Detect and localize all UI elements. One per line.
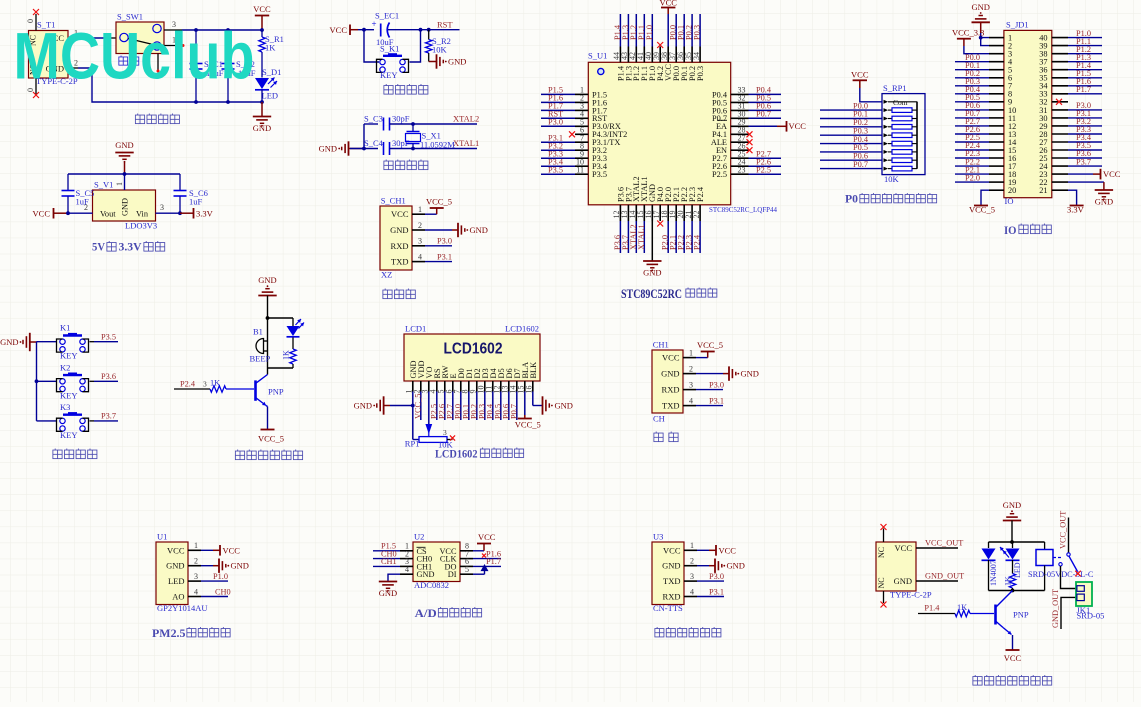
svg-text:GND_OUT: GND_OUT — [1051, 589, 1060, 628]
svg-text:23: 23 — [738, 165, 746, 174]
svg-text:1: 1 — [418, 205, 422, 214]
svg-text:GND: GND — [390, 225, 408, 235]
svg-text:RST: RST — [437, 19, 453, 29]
svg-text:VCC: VCC — [895, 543, 913, 553]
svg-text:P2.0: P2.0 — [965, 173, 980, 182]
wire/net P3.0 tts — [697, 580, 724, 582]
svg-text:GP2Y1014AU: GP2Y1014AU — [157, 603, 208, 613]
power port VCC top — [253, 4, 271, 16]
svg-text:VCC: VCC — [851, 70, 869, 80]
svg-text:4: 4 — [690, 587, 694, 596]
svg-text:1K: 1K — [1004, 576, 1013, 586]
svg-text:5: 5 — [465, 565, 469, 574]
power port VCC_5 serial — [696, 357, 708, 359]
svg-text:P0: P0 — [845, 194, 858, 206]
JD1 pin 14 — [989, 141, 1004, 143]
label voice module — [655, 627, 664, 637]
svg-text:GND: GND — [121, 198, 130, 216]
svg-text:GND: GND — [741, 369, 759, 379]
svg-text:U2: U2 — [414, 532, 424, 542]
svg-text:VCC_5: VCC_5 — [258, 434, 284, 444]
wire/net P3.0 serial — [696, 389, 723, 391]
key K2 — [37, 380, 57, 382]
JD1 pin 2 — [989, 45, 1004, 47]
JD1 pin 40 — [1052, 37, 1068, 39]
wire/net P2.5 JD1 — [955, 141, 989, 143]
svg-text:1: 1 — [115, 182, 124, 186]
wire/net P1.1 JD1 — [1068, 45, 1102, 47]
RP1 pin 5 — [884, 133, 889, 137]
pin 34 P0.3 — [699, 47, 701, 63]
svg-text:S_C3: S_C3 — [364, 114, 383, 124]
label serial port — [654, 432, 663, 442]
svg-text:GND: GND — [894, 576, 912, 586]
wire switch to JK1 — [1061, 566, 1077, 589]
svg-text:Vin: Vin — [136, 210, 149, 219]
pin 6 P4.3/INT2 — [575, 133, 588, 135]
ground GND LCD right — [532, 392, 534, 406]
pin 44 P1.4 — [619, 47, 621, 63]
pin 24 P2.6 — [731, 165, 749, 167]
JD1 pin 12 — [989, 125, 1004, 127]
wire VCC to RP1 com — [860, 88, 882, 102]
svg-text:21: 21 — [1039, 186, 1047, 195]
label alarm circuit — [235, 450, 244, 460]
svg-text:SRD-05: SRD-05 — [1077, 611, 1105, 621]
svg-text:RXD: RXD — [663, 592, 681, 602]
pin 5 P3.0/RX — [575, 125, 588, 127]
svg-text:TXD: TXD — [663, 576, 680, 586]
relay switch contact — [1053, 557, 1063, 559]
svg-text:P1.7: P1.7 — [486, 557, 501, 566]
JD1 pin 8 — [989, 93, 1004, 95]
wire alarm bottom node — [268, 367, 294, 369]
svg-text:3: 3 — [203, 380, 207, 389]
svg-text:GND: GND — [258, 275, 276, 285]
wire/net P3.6 JD1 — [1068, 157, 1102, 159]
wire button bus — [36, 342, 38, 421]
wire/net P2.6 JD1 — [955, 133, 989, 135]
wire/net P2.2 JD1 — [955, 165, 989, 167]
pin 17 P4.0 — [659, 205, 661, 221]
svg-text:S_CH1: S_CH1 — [381, 196, 406, 206]
wire/net P0.2 JD1 — [955, 77, 989, 79]
resistor 1K alarm — [292, 338, 294, 350]
svg-text:VCC: VCC — [1004, 653, 1022, 663]
svg-text:P2.4: P2.4 — [696, 186, 705, 202]
svg-text:1N4007: 1N4007 — [989, 560, 998, 586]
JD1 pin 11 — [989, 117, 1004, 119]
svg-text:GND: GND — [253, 123, 271, 133]
svg-text:GND: GND — [417, 570, 435, 579]
svg-text:VCC: VCC — [789, 121, 807, 131]
svg-text:10K: 10K — [432, 45, 448, 55]
pin 25 P2.7 — [731, 157, 749, 159]
crystal S_X1 11.0592M — [412, 124, 414, 131]
ground GND JD1 top — [971, 2, 989, 23]
RP1 pin 6 — [884, 142, 889, 146]
svg-text:P3.5: P3.5 — [548, 165, 563, 174]
wire/net P1.5 JD1 — [1068, 77, 1102, 79]
pin 33 P0.4 — [731, 93, 749, 95]
transistor PNP relay — [994, 605, 997, 625]
wire/net P2.4 JD1 — [955, 149, 989, 151]
wire P0.0 to RP1 — [820, 109, 882, 111]
ground GND ldo — [115, 153, 133, 163]
power port 3.3V ldo — [180, 212, 193, 214]
svg-text:3: 3 — [418, 237, 422, 246]
svg-text:4: 4 — [689, 396, 693, 405]
JD1 pin 34 — [1052, 85, 1068, 87]
wire/net P0.5 JD1 — [955, 101, 989, 103]
pin 22 P2.4 — [699, 205, 701, 221]
svg-text:P3.1: P3.1 — [709, 396, 724, 405]
pin 1 P1.5 — [575, 93, 588, 95]
svg-text:5V: 5V — [92, 242, 106, 254]
svg-text:3.3V: 3.3V — [196, 209, 214, 219]
label relay control circuit — [973, 675, 982, 685]
svg-text:CH1: CH1 — [381, 557, 397, 566]
RP1 pin 2 — [884, 108, 889, 112]
key K3 — [37, 420, 57, 422]
transistor PNP alarm — [254, 380, 257, 400]
mcu S_U1 STC89C52RC_LQFP44 — [588, 62, 730, 205]
wire VCC_3.3 to pin 3 — [964, 46, 989, 54]
svg-text:BEEP: BEEP — [250, 354, 271, 364]
wire/net P3.2 JD1 — [1068, 125, 1102, 127]
power port VCC_5 LCD backlight — [524, 392, 526, 416]
pin 16 GND — [651, 205, 653, 221]
svg-text:2: 2 — [689, 364, 693, 373]
svg-text:P1.0: P1.0 — [213, 572, 228, 581]
svg-text:S_RP1: S_RP1 — [883, 83, 907, 93]
JD1 pin 32 — [1052, 101, 1068, 103]
wire GND to pins 1-2 — [981, 33, 989, 38]
JD1 pin 5 — [989, 69, 1004, 71]
wire/net P3.1 tts — [697, 596, 724, 598]
label crystal circuit — [384, 160, 393, 170]
svg-text:10K: 10K — [884, 174, 900, 184]
wire/net P3.1 serial — [696, 405, 723, 407]
pin 3 P1.7 — [575, 109, 588, 111]
pin 20 P2.2 — [683, 205, 685, 221]
svg-text:2: 2 — [418, 221, 422, 230]
svg-text:3.3V: 3.3V — [119, 242, 143, 254]
svg-text:P3.0: P3.0 — [709, 380, 724, 389]
svg-text:NC: NC — [877, 547, 886, 558]
svg-text:P1.4: P1.4 — [924, 604, 940, 613]
svg-text:KEY: KEY — [60, 351, 77, 361]
power port VCC adc — [473, 550, 484, 552]
pin 43 P1.3 — [627, 47, 629, 63]
pin 27 ALE — [731, 141, 749, 143]
svg-text:TXD: TXD — [662, 401, 679, 411]
svg-text:VCC: VCC — [659, 0, 677, 8]
resistor network S_RP1 10K — [882, 94, 925, 175]
wire/net CH1 adc — [373, 565, 400, 567]
wire/net P1.0 JD1 — [1068, 37, 1102, 39]
header JK1 SRD-05 — [1076, 582, 1092, 606]
power port VCC relay — [1012, 635, 1014, 650]
JD1 pin 33 — [1052, 93, 1068, 95]
svg-text:GND: GND — [470, 225, 488, 235]
JD1 pin 36 — [1052, 69, 1068, 71]
svg-text:S_K1: S_K1 — [380, 44, 399, 54]
JD1 pin 10 — [989, 109, 1004, 111]
wire/net P0.6 JD1 — [955, 109, 989, 111]
power port 3.3V JD1 pin21 — [1068, 190, 1077, 205]
svg-text:+: + — [371, 19, 376, 29]
pin 40 P1.0 — [651, 47, 653, 63]
power port VCC_5 alarm — [267, 407, 269, 430]
svg-text:RP1: RP1 — [405, 439, 420, 449]
svg-text:VCC: VCC — [1103, 169, 1121, 179]
svg-text:11.0592M: 11.0592M — [420, 140, 455, 150]
JD1 pin 28 — [1052, 133, 1068, 135]
wire/net P0.7 JD1 — [955, 117, 989, 119]
JD1 pin 4 — [989, 61, 1004, 63]
pin 9 P3.3 — [575, 157, 588, 159]
wire relay top rail — [989, 541, 1045, 543]
wire/net P2.3 JD1 — [955, 157, 989, 159]
svg-text:GND: GND — [448, 57, 466, 67]
svg-text:1K: 1K — [265, 43, 276, 53]
svg-text:A/D: A/D — [415, 608, 437, 620]
svg-text:GND: GND — [354, 401, 372, 411]
relay T pin bottom no-connect — [883, 591, 885, 603]
pin 2 P1.6 — [575, 101, 588, 103]
JD1 pin 35 — [1052, 77, 1068, 79]
svg-text:AO: AO — [172, 592, 184, 602]
relay coil SRD-05VDC-SL-C — [1044, 542, 1046, 550]
svg-text:P0.7: P0.7 — [509, 404, 518, 419]
label reset circuit — [384, 84, 393, 94]
JD1 pin 18 — [989, 173, 1004, 175]
JD1 pin 6 — [989, 77, 1004, 79]
pin 18 P2.0 — [667, 205, 669, 221]
JD1 pin 38 — [1052, 53, 1068, 55]
svg-text:GND: GND — [661, 369, 679, 379]
pin 37 P0.0 — [675, 47, 677, 63]
svg-text:P3.0: P3.0 — [709, 572, 724, 581]
pin 23 P2.5 — [731, 173, 749, 175]
svg-text:VCC: VCC — [663, 545, 681, 555]
svg-text:TYPE-C-2P: TYPE-C-2P — [890, 590, 932, 600]
svg-text:Vout: Vout — [100, 210, 116, 219]
lcd LCD1 LCD1602 — [404, 334, 540, 381]
wire ldo top rail — [68, 173, 180, 175]
JD1 pin 15 — [989, 149, 1004, 151]
wire relay bottom rail — [989, 590, 1045, 592]
wire/net P1.6 JD1 — [1068, 85, 1102, 87]
wire/net P0.1 JD1 — [955, 69, 989, 71]
svg-text:CH0: CH0 — [215, 587, 231, 596]
svg-text:ADC0832: ADC0832 — [414, 580, 449, 590]
svg-text:S_U1: S_U1 — [588, 51, 607, 61]
svg-text:4: 4 — [418, 252, 422, 261]
svg-text:P3.0: P3.0 — [437, 237, 452, 246]
wire/net CH0 pm25 — [201, 596, 228, 598]
switch pin1 stub — [164, 45, 182, 47]
JD1 pin 13 — [989, 133, 1004, 135]
wire VCC to EC1 — [358, 29, 374, 31]
svg-text:LED: LED — [262, 91, 279, 101]
svg-text:RXD: RXD — [391, 241, 409, 251]
svg-text:VCC: VCC — [719, 545, 737, 555]
svg-text:CN-TTS: CN-TTS — [653, 603, 683, 613]
pin 11 P3.5 — [575, 173, 588, 175]
power port VCC_5 download — [425, 213, 437, 215]
wire/net P3.0 JD1 — [1068, 109, 1102, 111]
pin 32 P0.5 — [731, 101, 749, 103]
svg-text:1uF: 1uF — [189, 197, 203, 207]
svg-text:PNP: PNP — [268, 387, 284, 397]
pin 15 XTAL1 — [643, 205, 645, 221]
svg-text:1: 1 — [689, 348, 693, 357]
capacitor S_C6 1uF — [179, 174, 181, 190]
wire/net P3.3 JD1 — [1068, 133, 1102, 135]
LED S_D1 — [255, 78, 269, 89]
svg-text:4: 4 — [194, 587, 198, 596]
svg-text:LED: LED — [168, 576, 185, 586]
wire/net CH0 adc — [373, 558, 400, 560]
pin 31 P0.6 — [731, 109, 749, 111]
svg-text:VCC: VCC — [662, 353, 680, 363]
svg-text:VCC: VCC — [478, 532, 496, 542]
JD1 pin 17 — [989, 165, 1004, 167]
svg-text:VCC_3.3: VCC_3.3 — [952, 27, 984, 37]
JD1 pin 37 — [1052, 61, 1068, 63]
wire JK1 to GND_OUT — [1061, 597, 1076, 629]
svg-text:3: 3 — [194, 572, 198, 581]
switch bottom stub — [157, 54, 159, 71]
wire/net P1.7 adc — [473, 565, 501, 567]
wire/net P1.5 adc — [373, 550, 400, 552]
svg-text:VCC_OUT: VCC_OUT — [925, 539, 963, 548]
svg-text:GND: GND — [231, 561, 249, 571]
svg-text:B1: B1 — [253, 327, 263, 337]
pin 0 top no-connect — [35, 14, 37, 31]
svg-text:KEY: KEY — [60, 430, 77, 440]
wire/net P1.7 JD1 — [1068, 93, 1102, 95]
svg-text:3: 3 — [690, 572, 694, 581]
svg-text:S_JD1: S_JD1 — [1006, 20, 1029, 30]
svg-text:XTAL1: XTAL1 — [637, 224, 646, 250]
JD1 pin 24 — [1052, 165, 1068, 167]
pin 0 bottom no-connect — [35, 78, 37, 94]
svg-text:S_EC1: S_EC1 — [375, 11, 399, 21]
svg-text:GND: GND — [662, 561, 680, 571]
label button circuit — [53, 449, 62, 459]
wire Vin — [156, 212, 181, 214]
RP1 pin 9 — [884, 167, 889, 171]
JD1 pin 3 — [989, 53, 1004, 55]
svg-text:S_D1: S_D1 — [262, 67, 281, 77]
pin 12 P3.6 — [619, 205, 621, 221]
svg-text:XZ: XZ — [381, 270, 392, 280]
pin 19 P2.1 — [675, 205, 677, 221]
svg-text:3: 3 — [689, 380, 693, 389]
svg-text:22: 22 — [692, 211, 701, 219]
JD1 pin 19 — [989, 181, 1004, 183]
svg-text:IO: IO — [1004, 225, 1017, 237]
svg-text:VCC_5: VCC_5 — [426, 197, 452, 207]
ground GND alarm — [258, 275, 276, 296]
svg-text:S_C4: S_C4 — [364, 138, 384, 148]
wire P0.3 to RP1 — [820, 134, 882, 136]
svg-text:4: 4 — [405, 565, 409, 574]
RP1 pin 3 — [884, 117, 889, 121]
resistor S_R2 10K — [428, 30, 430, 40]
wire P0.7 to RP1 — [820, 168, 882, 170]
svg-text:K3: K3 — [60, 402, 70, 412]
pin 8 P3.2 — [575, 149, 588, 151]
svg-text:U1: U1 — [157, 532, 167, 542]
wire/net P0.4 JD1 — [955, 93, 989, 95]
diode 1N4007 — [988, 542, 990, 548]
svg-text:STC89C52RC_LQFP44: STC89C52RC_LQFP44 — [709, 205, 777, 214]
wire bottom rail — [68, 67, 78, 69]
power port VCC tts — [697, 549, 709, 551]
ground GND tts — [697, 565, 709, 567]
svg-text:P3.7: P3.7 — [1076, 157, 1091, 166]
svg-text:P3.7: P3.7 — [101, 412, 116, 421]
svg-text:P2.4: P2.4 — [693, 234, 702, 250]
svg-text:P3.0: P3.0 — [548, 118, 563, 127]
svg-text:GND: GND — [166, 561, 184, 571]
wire/net GND_OUT — [916, 580, 958, 582]
power port VCC RP1 — [851, 70, 869, 81]
ground GND LCD left — [412, 392, 414, 406]
svg-text:PM2.5: PM2.5 — [152, 628, 186, 640]
label power circuit — [135, 114, 144, 124]
key K1 — [37, 341, 57, 343]
svg-text:2: 2 — [194, 557, 198, 566]
adc U2 ADC0832 — [413, 542, 460, 582]
pin 41 P1.1 — [643, 47, 645, 63]
svg-text:LCD1602: LCD1602 — [444, 341, 503, 358]
svg-text:RXD: RXD — [662, 385, 680, 395]
capacitor S_C4 30pF — [350, 148, 378, 150]
JD1 pin 27 — [1052, 141, 1068, 143]
pin 10 P3.4 — [575, 165, 588, 167]
svg-text:20: 20 — [1008, 186, 1016, 195]
ground GND adc — [388, 574, 400, 581]
wire P0.2 to RP1 — [820, 126, 882, 128]
svg-text:NC: NC — [877, 577, 886, 588]
ground GND relay top — [1003, 500, 1021, 521]
svg-text:3.3V: 3.3V — [1067, 205, 1085, 215]
wire alarm top node — [268, 317, 294, 319]
wire/net P3.1 JD1 — [1068, 117, 1102, 119]
svg-text:BLK: BLK — [529, 362, 538, 379]
svg-text:MCUclub: MCUclub — [14, 19, 255, 93]
svg-text:KEY: KEY — [60, 390, 77, 400]
svg-text:P1.0: P1.0 — [645, 25, 654, 40]
ground GND serial — [696, 373, 723, 375]
svg-text:P3.1: P3.1 — [437, 252, 452, 261]
connector TYPE-C-2P relay — [876, 542, 916, 591]
ground GND JD1 pin22 — [1068, 181, 1104, 183]
module U3 CN-TTS — [652, 542, 684, 605]
relay T pin top no-connect — [883, 529, 885, 543]
wire switch pin3 to VCC rail — [164, 29, 182, 31]
JD1 pin 1 — [989, 37, 1004, 39]
svg-text:GND: GND — [319, 144, 337, 154]
svg-text:P0.3: P0.3 — [696, 66, 705, 81]
svg-text:Com: Com — [893, 98, 908, 107]
svg-text:IO: IO — [1005, 196, 1014, 206]
